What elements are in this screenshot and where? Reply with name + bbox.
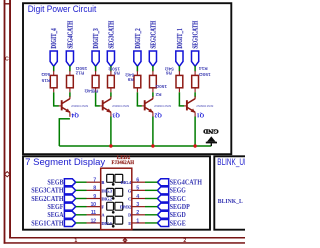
svg-text:8: 8 bbox=[93, 186, 96, 192]
net flag SEG4CATH bbox=[66, 51, 73, 66]
pin lead 2 bbox=[132, 214, 145, 216]
net flag SEGF bbox=[64, 203, 75, 210]
wire pin 11 bbox=[76, 214, 87, 216]
frame column divider bbox=[124, 238, 125, 243]
wire pin 2 bbox=[145, 214, 157, 216]
wire pin 9 bbox=[76, 198, 87, 200]
net flag SEGE bbox=[157, 219, 168, 226]
frame row divider top bbox=[4, 3, 11, 4]
svg-text:2N3904 2N39: 2N3904 2N39 bbox=[196, 104, 213, 108]
box: Digit Power Circuit bbox=[23, 3, 231, 154]
svg-text:11: 11 bbox=[91, 210, 96, 216]
svg-text:54Ω: 54Ω bbox=[41, 72, 50, 77]
display body FJ3462AH bbox=[101, 168, 132, 229]
svg-text:7: 7 bbox=[93, 178, 96, 184]
wire flag DIGIT_3 to resistor bbox=[95, 66, 97, 72]
svg-text:SEG1CATH: SEG1CATH bbox=[31, 219, 64, 227]
svg-text:D: D bbox=[128, 213, 131, 218]
net flag DIGIT_3 bbox=[92, 51, 99, 66]
net flag SEGB bbox=[64, 179, 75, 186]
sheet frame left outer line bbox=[4, 0, 6, 244]
wire flag DIGIT_4 to resistor bbox=[53, 66, 55, 72]
svg-text:E: E bbox=[128, 221, 131, 226]
wire resistor to collector Q1 bbox=[194, 92, 196, 97]
svg-text:4: 4 bbox=[136, 194, 139, 200]
svg-text:R15: R15 bbox=[41, 78, 50, 83]
svg-text:2N3904 2N39: 2N3904 2N39 bbox=[112, 104, 129, 108]
svg-text:54Ω: 54Ω bbox=[84, 89, 93, 94]
wire pin 8 bbox=[76, 189, 87, 191]
digit graphic 1 bbox=[107, 174, 123, 185]
svg-text:SEGC: SEGC bbox=[170, 195, 186, 203]
wire resistor to collector Q2 bbox=[152, 92, 154, 97]
wire flag SEG4CATH to resistor bbox=[69, 66, 71, 72]
svg-text:R5: R5 bbox=[92, 89, 98, 94]
svg-text:B: B bbox=[102, 180, 105, 185]
net flag SEG1CATH bbox=[192, 51, 199, 66]
svg-text:SEGB: SEGB bbox=[47, 179, 63, 187]
wire flag SEG1CATH to resistor bbox=[194, 66, 196, 72]
svg-text:Q3: Q3 bbox=[112, 111, 120, 117]
svg-text:R12: R12 bbox=[75, 71, 84, 76]
svg-text:6: 6 bbox=[136, 178, 139, 184]
pin lead 1 bbox=[132, 222, 145, 224]
svg-text:DIGIT_4: DIGIT_4 bbox=[50, 28, 58, 49]
wire emitter rail bbox=[59, 145, 211, 147]
svg-text:54Ω: 54Ω bbox=[125, 73, 134, 78]
svg-text:SEGE: SEGE bbox=[170, 219, 186, 227]
pin lead 7 bbox=[87, 181, 101, 183]
svg-text:150Ω: 150Ω bbox=[75, 66, 87, 71]
net flag SEG3CATH bbox=[64, 187, 75, 194]
wire emitter Q1 to rail bbox=[194, 117, 196, 147]
svg-text:SEG4CATH: SEG4CATH bbox=[66, 21, 74, 49]
svg-text:DIG.2: DIG.2 bbox=[102, 196, 112, 201]
svg-text:SEGA: SEGA bbox=[47, 211, 63, 219]
net flag SEGC bbox=[157, 195, 168, 202]
svg-text:GND: GND bbox=[203, 128, 219, 135]
net flag SEG2CATH bbox=[64, 195, 75, 202]
svg-text:150Ω: 150Ω bbox=[155, 84, 167, 89]
wire emitter Q2 to rail bbox=[152, 117, 154, 147]
wire resistor to base Q4 bbox=[53, 92, 55, 106]
svg-text:R2: R2 bbox=[155, 92, 161, 97]
wire flag DIGIT_2 to resistor bbox=[136, 66, 138, 72]
digit graphic 3 bbox=[107, 202, 123, 213]
ground GND bbox=[203, 128, 219, 146]
lead bbox=[152, 71, 154, 76]
svg-text:7 Segment Display: 7 Segment Display bbox=[25, 157, 105, 167]
svg-text:Q2: Q2 bbox=[154, 111, 162, 117]
box: BLINK bbox=[214, 156, 254, 229]
svg-text:SEGF: SEGF bbox=[47, 203, 63, 211]
wire pin 5 bbox=[145, 189, 157, 191]
junction bbox=[151, 144, 154, 147]
pin lead 10 bbox=[87, 206, 101, 208]
svg-text:DIGIT_2: DIGIT_2 bbox=[134, 28, 142, 49]
svg-text:C: C bbox=[128, 196, 131, 201]
junction bbox=[109, 144, 112, 147]
svg-text:DIG.4: DIG.4 bbox=[121, 180, 132, 185]
wire pin 4 bbox=[145, 198, 157, 200]
svg-text:SEGG: SEGG bbox=[170, 187, 187, 195]
svg-text:2: 2 bbox=[136, 210, 139, 216]
svg-text:R8: R8 bbox=[114, 71, 120, 76]
net flag SEG4CATH bbox=[157, 179, 168, 186]
svg-text:1: 1 bbox=[74, 238, 77, 244]
pin lead 4 bbox=[132, 198, 145, 200]
svg-text:SEGDP: SEGDP bbox=[170, 203, 191, 211]
svg-text:DIG.3: DIG.3 bbox=[102, 188, 112, 193]
svg-text:150Ω: 150Ω bbox=[199, 72, 211, 77]
svg-text:SEG4CATH: SEG4CATH bbox=[170, 179, 203, 187]
lead bbox=[136, 71, 138, 76]
svg-text:R6: R6 bbox=[166, 71, 172, 76]
net flag DIGIT_1 bbox=[176, 51, 183, 66]
wire flag DIGIT_1 to resistor bbox=[178, 66, 180, 72]
wire resistor to collector Q3 bbox=[110, 92, 112, 97]
net flag SEGD bbox=[157, 211, 168, 218]
wire flag SEG2CATH to resistor bbox=[152, 66, 154, 72]
lead bbox=[110, 71, 112, 76]
svg-text:R9: R9 bbox=[127, 77, 133, 82]
wire pin 12 bbox=[76, 222, 87, 224]
wire emitter Q3 to rail bbox=[110, 117, 112, 147]
svg-text:DIG.1: DIG.1 bbox=[102, 221, 112, 226]
sheet frame left inner line bbox=[9, 0, 11, 238]
svg-text:R14: R14 bbox=[199, 66, 208, 71]
lead bbox=[95, 71, 97, 76]
svg-text:DIGIT_3: DIGIT_3 bbox=[92, 28, 100, 49]
wire resistor to base Q3 bbox=[95, 92, 97, 106]
svg-text:BLINK_UP: BLINK_UP bbox=[217, 157, 245, 167]
wire resistor to collector Q4 bbox=[69, 92, 71, 97]
svg-text:SEG2CATH: SEG2CATH bbox=[31, 195, 64, 203]
lead bbox=[69, 71, 71, 76]
transistor Q3 2N3904 bbox=[100, 96, 111, 117]
wire pin 3 bbox=[145, 206, 157, 208]
pin lead 9 bbox=[87, 198, 101, 200]
net flag DIGIT_2 bbox=[134, 51, 141, 66]
svg-text:SEG1CATH: SEG1CATH bbox=[192, 21, 200, 49]
net flag SEGDP bbox=[157, 203, 168, 210]
pin lead 6 bbox=[132, 181, 145, 183]
pin lead 11 bbox=[87, 214, 101, 216]
net flag SEG3CATH bbox=[107, 51, 114, 66]
svg-text:SEGD: SEGD bbox=[170, 211, 186, 219]
wire pin 6 bbox=[145, 181, 157, 183]
lead bbox=[53, 71, 55, 76]
net flag SEG2CATH bbox=[149, 51, 156, 66]
svg-text:2N3904 2N39: 2N3904 2N39 bbox=[154, 104, 171, 108]
wire flag SEG3CATH to resistor bbox=[110, 66, 112, 72]
transistor Q1 2N3904 bbox=[184, 96, 195, 117]
net flag SEGG bbox=[157, 187, 168, 194]
svg-text:9: 9 bbox=[93, 194, 96, 200]
lead bbox=[194, 71, 196, 76]
svg-text:2N3904 2N39: 2N3904 2N39 bbox=[71, 104, 88, 108]
svg-text:SEG2CATH: SEG2CATH bbox=[149, 21, 157, 49]
box: 7 Segment Display bbox=[23, 156, 210, 229]
svg-text:A: A bbox=[102, 213, 105, 218]
wire pin 10 bbox=[76, 206, 87, 208]
net flag SEGA bbox=[64, 211, 75, 218]
svg-text:3: 3 bbox=[136, 202, 139, 208]
transistor Q4 2N3904 bbox=[59, 96, 70, 117]
pin lead 12 bbox=[87, 222, 101, 224]
svg-text:Q1: Q1 bbox=[197, 111, 205, 117]
svg-text:FJ3462AH: FJ3462AH bbox=[112, 161, 135, 166]
digit graphic 4 bbox=[107, 216, 123, 227]
net flag SEG1CATH bbox=[64, 219, 75, 226]
frame bottom outer line bbox=[4, 242, 245, 244]
svg-text:12: 12 bbox=[90, 218, 96, 224]
wire resistor to base Q1 bbox=[178, 92, 180, 106]
transistor Q2 2N3904 bbox=[142, 96, 153, 117]
svg-text:C: C bbox=[5, 56, 9, 62]
svg-text:BLINK_L: BLINK_L bbox=[218, 198, 244, 205]
pin lead 3 bbox=[132, 206, 145, 208]
svg-text:5: 5 bbox=[136, 186, 139, 192]
pin lead 5 bbox=[132, 189, 145, 191]
svg-text:1: 1 bbox=[136, 218, 139, 224]
digit graphic 2 bbox=[107, 188, 123, 199]
wire pin 7 bbox=[76, 181, 87, 183]
svg-text:10: 10 bbox=[90, 202, 96, 208]
wire pin 1 bbox=[145, 222, 157, 224]
pin lead 8 bbox=[87, 189, 101, 191]
net flag DIGIT_4 bbox=[50, 51, 57, 66]
junction bbox=[193, 144, 196, 147]
svg-text:SEG3CATH: SEG3CATH bbox=[107, 21, 115, 49]
frame bottom inner line bbox=[9, 237, 245, 239]
svg-text:DP/D2: DP/D2 bbox=[120, 205, 131, 210]
svg-text:2: 2 bbox=[183, 238, 186, 244]
svg-text:DIGIT_1: DIGIT_1 bbox=[176, 28, 184, 49]
frame row divider marker bbox=[5, 172, 10, 177]
wire resistor to base Q2 bbox=[136, 92, 138, 106]
svg-text:SEG3CATH: SEG3CATH bbox=[31, 187, 64, 195]
wire emitter Q4 to rail (left route) bbox=[59, 118, 70, 120]
svg-text:Digit Power Circuit: Digit Power Circuit bbox=[28, 4, 97, 14]
lead bbox=[178, 71, 180, 76]
svg-text:Q4: Q4 bbox=[71, 111, 79, 117]
